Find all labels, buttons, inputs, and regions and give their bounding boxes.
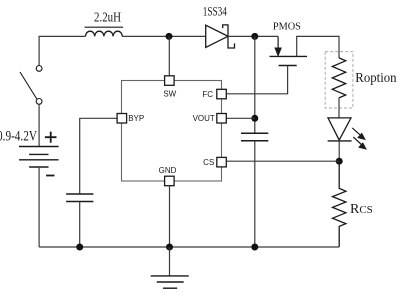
pin CS xyxy=(203,157,226,167)
resistor RCS xyxy=(333,161,346,247)
svg-text:RCS: RCS xyxy=(350,202,373,217)
svg-text:FC: FC xyxy=(202,90,213,99)
ground xyxy=(151,276,189,288)
svg-text:BYP: BYP xyxy=(128,114,144,123)
node SW tap junction xyxy=(166,33,173,40)
wire LED to CS node xyxy=(338,141,340,161)
node C1 rail junction xyxy=(76,244,83,251)
pin BYP xyxy=(117,114,144,124)
IC U1 body xyxy=(122,81,222,182)
wire battery to bottom rail xyxy=(38,167,40,247)
wire SW pin to rail xyxy=(168,36,170,75)
wire top rail left segment xyxy=(39,36,85,65)
node GND rail junction xyxy=(166,244,173,251)
pin FC xyxy=(202,89,226,99)
battery BT1 xyxy=(19,132,59,176)
capacitor C2 output xyxy=(241,133,268,141)
pin VOUT xyxy=(193,114,227,124)
capacitor C1 xyxy=(66,194,93,202)
node CS junction xyxy=(336,158,343,165)
wire output vertical (rail to VOUT to C2) xyxy=(254,36,256,133)
svg-text:PMOS: PMOS xyxy=(273,22,301,33)
wire C1 to bottom rail xyxy=(79,202,81,248)
wire C2 to bottom rail xyxy=(254,141,256,247)
inductor L1 xyxy=(85,27,124,36)
svg-text:SW: SW xyxy=(163,89,176,98)
wire CS pin to CS node xyxy=(226,160,339,162)
transistor Q1 PMOS xyxy=(270,36,308,65)
switch S1 xyxy=(20,66,42,105)
diode D1 1SS34 (schottky) xyxy=(206,25,235,48)
wire Roption to LED xyxy=(338,98,340,118)
pin GND xyxy=(159,166,177,186)
svg-text:Roption: Roption xyxy=(355,70,397,85)
wire GND pin to rail xyxy=(169,186,171,247)
LED D2 xyxy=(328,118,367,150)
node VOUT junction xyxy=(251,115,258,122)
pin SW xyxy=(163,76,176,99)
wire inductor to diode xyxy=(122,35,206,37)
node output cap rail junction xyxy=(251,244,258,251)
svg-text:GND: GND xyxy=(159,166,177,175)
wire PMOS gate to FC xyxy=(226,66,287,94)
node output junction on rail xyxy=(251,33,258,40)
wire PMOS drain to Roption xyxy=(297,36,339,58)
wire VOUT pin to output line xyxy=(226,117,255,119)
svg-text:1SS34: 1SS34 xyxy=(203,5,228,19)
wire BYP to C1 xyxy=(80,118,117,194)
svg-text:2.2uH: 2.2uH xyxy=(94,9,121,24)
wire rail to ground symbol xyxy=(169,247,171,276)
wire diode to PMOS source xyxy=(228,35,278,37)
svg-text:CS: CS xyxy=(203,158,214,167)
resistor Roption xyxy=(325,52,353,108)
wire switch to battery xyxy=(38,104,40,146)
wire bottom rail xyxy=(39,246,339,248)
svg-text:0.9-4.2V: 0.9-4.2V xyxy=(0,129,37,145)
svg-text:VOUT: VOUT xyxy=(193,114,215,123)
